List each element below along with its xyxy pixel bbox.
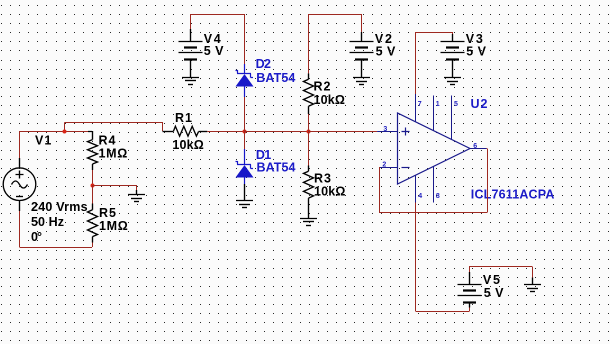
ground at V5 plus (524, 278, 541, 292)
svg-text:5 V: 5 V (376, 44, 396, 58)
D1 anode lead to ground (244, 184, 246, 200)
svg-text:1MΩ: 1MΩ (99, 147, 128, 161)
wire pin 4 down to V5 minus (416, 203, 470, 312)
svg-text:D2: D2 (256, 57, 271, 71)
node A junction dot (63, 130, 67, 134)
diode D2 BAT54 schottky (236, 64, 254, 97)
svg-text:1: 1 (436, 101, 440, 108)
svg-text:240 Vrms: 240 Vrms (31, 200, 88, 214)
resistor R5 (88, 204, 98, 243)
svg-text:5 V: 5 V (204, 44, 224, 58)
node D junction dot (307, 130, 311, 134)
wire node B to D1 cathode (244, 132, 246, 149)
diode D1 BAT54 schottky (236, 149, 254, 184)
svg-text:5 V: 5 V (466, 44, 486, 58)
svg-text:1MΩ: 1MΩ (99, 219, 128, 233)
op-amp plus input marker (402, 128, 410, 136)
svg-text:50 Hz: 50 Hz (31, 215, 64, 229)
svg-text:7: 7 (418, 101, 422, 108)
op-amp U2 pin 7 lead (415, 94, 417, 122)
svg-text:R1: R1 (175, 111, 192, 125)
op-amp pin 2 stub (380, 167, 398, 169)
wire R2 bottom to node D (308, 114, 310, 131)
op-amp pin 6 output stub (470, 148, 486, 150)
svg-text:5 V: 5 V (484, 286, 504, 300)
wire node A riser and jog to R1 (65, 122, 163, 131)
wire feedback pin 6 to pin 2 (379, 149, 488, 213)
svg-text:3: 3 (383, 126, 387, 133)
svg-text:R4: R4 (99, 134, 116, 148)
wire D2 anode to node B (244, 97, 246, 131)
svg-text:8: 8 (436, 193, 440, 200)
ground below D1 (236, 201, 253, 208)
node C junction dot (91, 184, 95, 188)
wire R5 bottom (92, 243, 94, 248)
svg-text:4: 4 (418, 193, 422, 200)
svg-text:ICL7611ACPA: ICL7611ACPA (471, 188, 555, 202)
resistor R2 (304, 73, 314, 114)
svg-text:0°: 0° (31, 230, 42, 244)
op-amp pin 3 stub (377, 131, 397, 133)
resistor R1 (163, 126, 208, 136)
svg-text:10kΩ: 10kΩ (314, 185, 345, 199)
wire node C to R5 (92, 185, 94, 204)
svg-text:V1: V1 (35, 134, 51, 148)
svg-text:6: 6 (473, 143, 477, 150)
svg-text:2: 2 (382, 161, 386, 168)
op-amp pin 4 lead (415, 175, 417, 202)
op-amp U2 pin 5 lead (451, 96, 453, 140)
wire node A to R4 (64, 131, 88, 133)
svg-text:BAT54: BAT54 (256, 71, 295, 85)
battery V2 (350, 32, 374, 78)
svg-text:R3: R3 (314, 172, 331, 186)
battery V3 (441, 34, 465, 78)
ground below R3 (300, 219, 317, 226)
resistor R4 (88, 131, 98, 170)
svg-text:R5: R5 (99, 206, 116, 220)
wire node D to R3 (308, 132, 310, 166)
wire V1 top lead to rail (19, 132, 64, 159)
ac source V1 (3, 158, 36, 211)
wire node C to ground stub (92, 185, 137, 190)
wire R1 to node B (207, 131, 244, 133)
wire V2 plus to R2 top rail (309, 14, 362, 73)
battery V5 (458, 272, 482, 308)
ground below V2 (353, 78, 370, 85)
wire V5 plus to ground (470, 266, 533, 278)
wire V4 plus to D2 cathode rail (191, 14, 245, 64)
wire node D to op-amp pin 3 (308, 131, 377, 133)
battery V4 (179, 29, 203, 77)
wire node B to node D (244, 131, 308, 133)
node B junction dot (243, 130, 247, 134)
wire V3 plus to op-amp pin 7 (415, 32, 453, 94)
svg-text:R2: R2 (314, 80, 331, 94)
op-amp minus input marker (402, 167, 410, 169)
ground at R4/R5 node (128, 190, 145, 202)
op-amp U2 triangle body (398, 113, 471, 184)
svg-text:U2: U2 (471, 97, 488, 111)
svg-text:10kΩ: 10kΩ (172, 138, 203, 152)
wire V1 bottom to rail (20, 211, 93, 248)
svg-text:BAT54: BAT54 (257, 161, 296, 175)
ground below V4 (182, 78, 199, 85)
wire R4 bottom to node C (92, 170, 94, 185)
svg-text:5: 5 (454, 101, 458, 108)
op-amp pin 8 lead (433, 166, 435, 202)
op-amp U2 pin 1 lead (433, 96, 435, 131)
ground below V3 (444, 78, 461, 85)
svg-text:10kΩ: 10kΩ (314, 93, 345, 107)
resistor R3 (304, 166, 314, 219)
